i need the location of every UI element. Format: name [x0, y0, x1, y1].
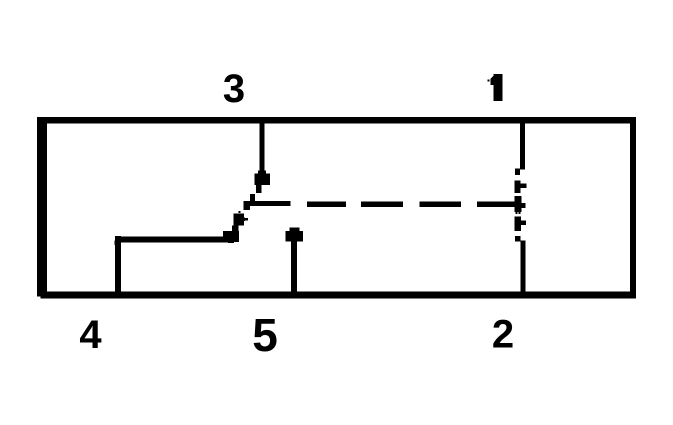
svg-text:3: 3 [223, 67, 245, 111]
svg-text:2: 2 [492, 313, 514, 357]
svg-text:4: 4 [79, 313, 102, 357]
svg-text:5: 5 [252, 309, 278, 361]
